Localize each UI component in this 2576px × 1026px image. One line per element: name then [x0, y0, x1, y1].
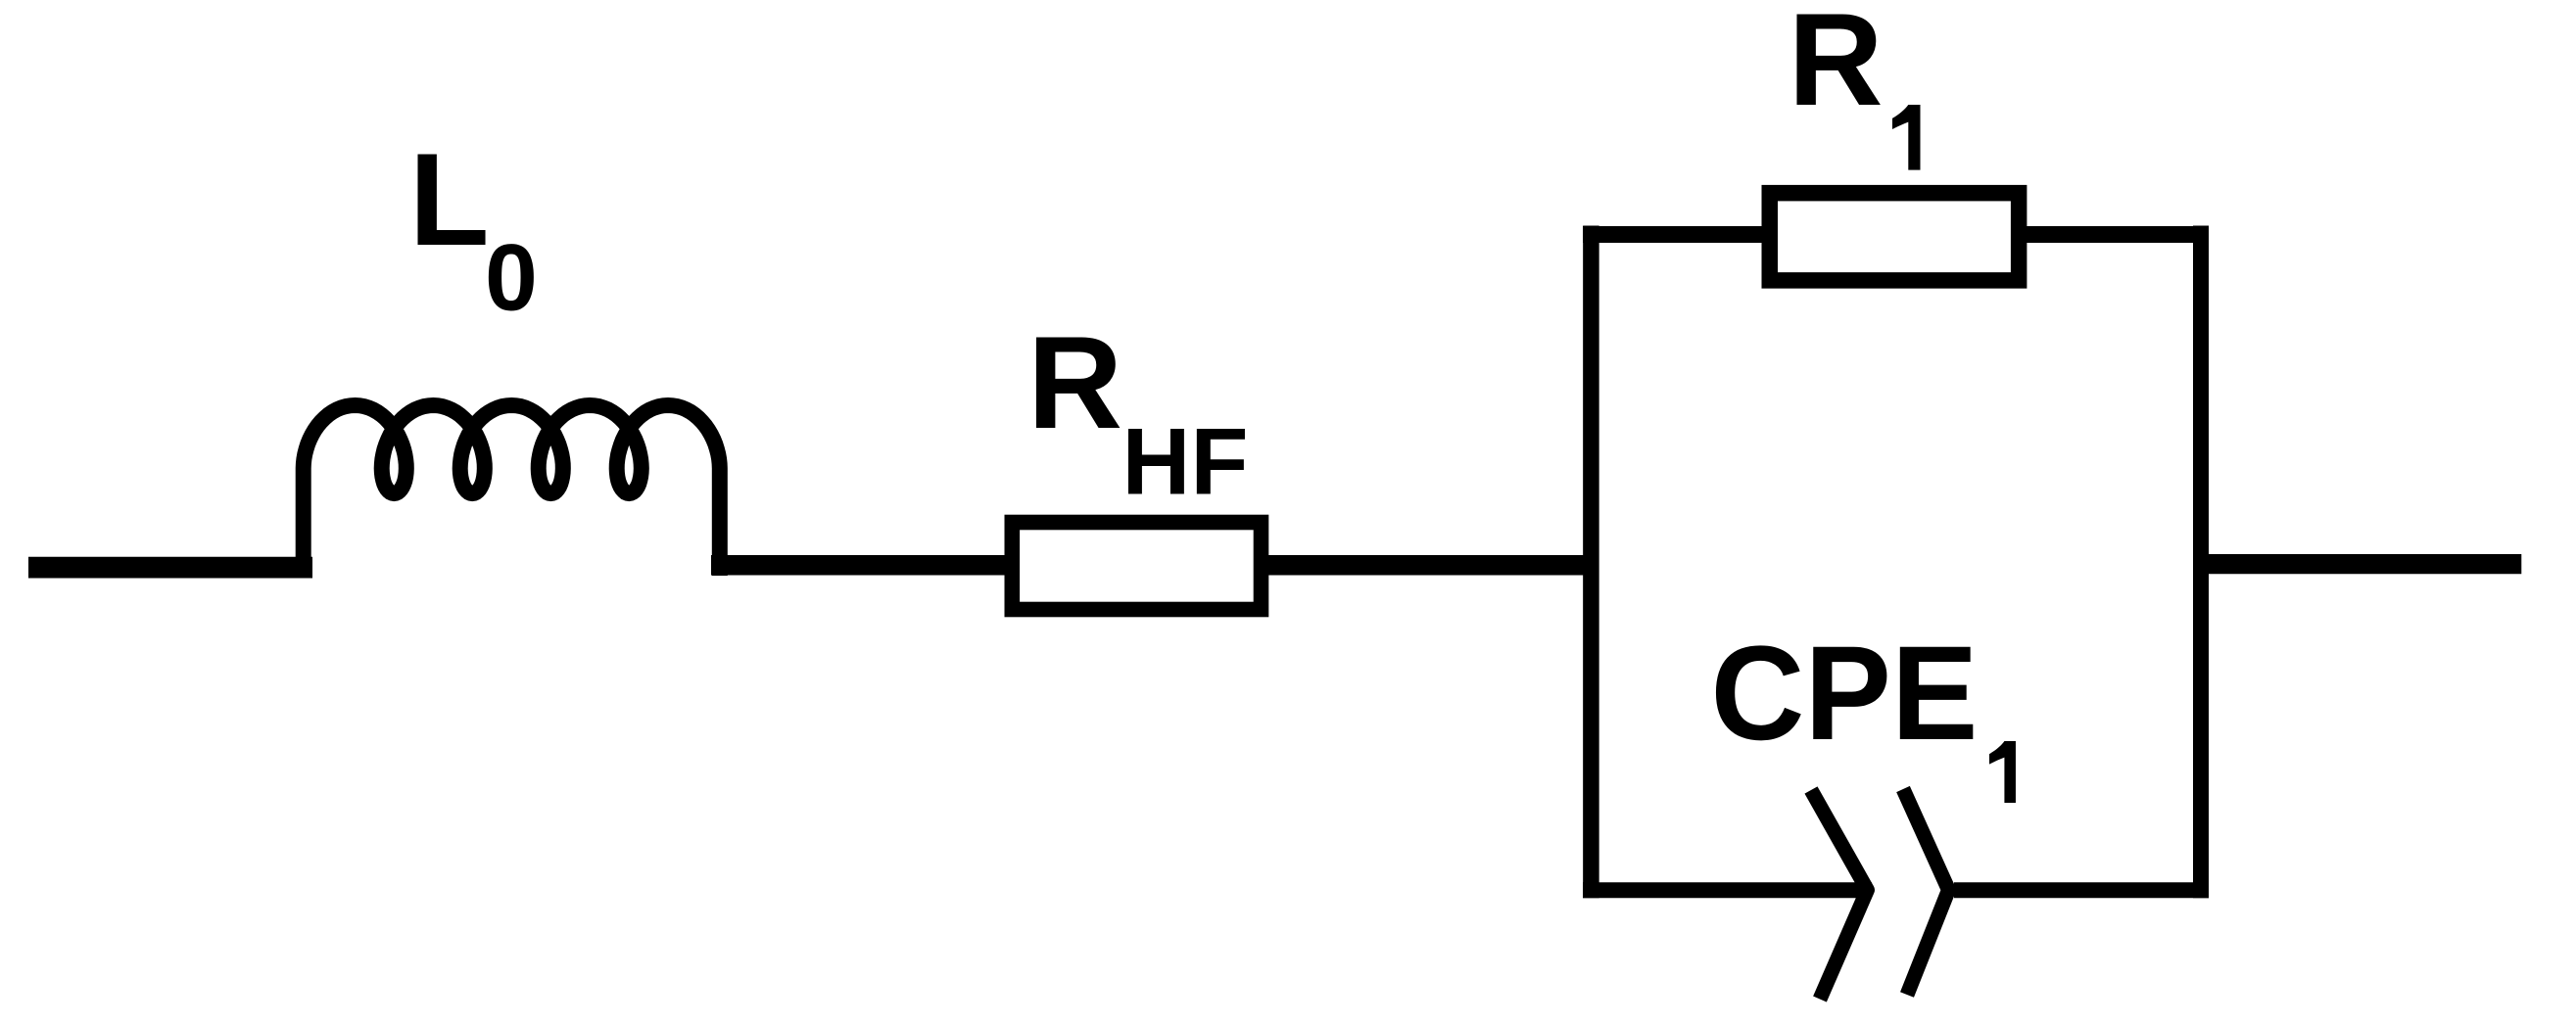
wire box right vertical: [2193, 226, 2209, 899]
svg-text:HF: HF: [1122, 408, 1249, 515]
label CPE1: [1711, 619, 2016, 803]
wire box bottom branch left: [1583, 882, 1872, 898]
resistor RHF: [1012, 523, 1261, 610]
svg-text:R: R: [1027, 308, 1122, 456]
label R1: [1789, 0, 1921, 170]
svg-text:CPE: CPE: [1711, 619, 1979, 769]
wire box bottom branch right: [1954, 882, 2209, 898]
svg-text:L: L: [409, 125, 490, 273]
wire middle: [711, 555, 1598, 576]
label RHF: [1027, 308, 1249, 515]
label L0: [409, 125, 538, 331]
inductor L0: [304, 405, 720, 576]
svg-text:0: 0: [485, 224, 538, 331]
wire box top branch: [1583, 226, 2209, 243]
resistor R1: [1770, 193, 2019, 280]
wire left lead: [28, 557, 312, 579]
CPE1 element: [1811, 789, 1949, 1000]
wire box left vertical: [1583, 226, 1599, 899]
svg-text:R: R: [1789, 0, 1884, 133]
wire right lead: [2201, 554, 2521, 574]
